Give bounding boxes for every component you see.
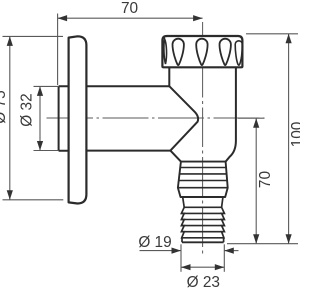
dim O23: left arrow: [181, 264, 191, 270]
dim O19: right arrow: [224, 248, 234, 254]
svg-text:70: 70: [257, 171, 274, 188]
dim O75: dimension line: [9, 36, 11, 199]
lower hose barb left profile: [181, 197, 184, 242]
lower hose barb right profile: [222, 197, 225, 242]
dim O23: dimension line: [181, 266, 224, 268]
cap (knurled nut): [162, 36, 242, 67]
dim O32: top arrow: [37, 86, 43, 96]
lower barb ring line 3: [181, 219, 224, 221]
dim O32: dimension line: [39, 86, 41, 150]
dim O19: right extension line: [223, 244, 225, 271]
svg-text:100: 100: [289, 122, 300, 148]
knurl slot 4: [220, 39, 231, 65]
dim 100: bottom extension line: [227, 243, 298, 245]
dim O75: bottom arrow: [7, 190, 13, 200]
dim O19: right leader line: [224, 250, 238, 252]
upper hose barb: [178, 162, 228, 197]
upper barb ring line 2: [180, 173, 227, 175]
knurl slot 2: [173, 39, 184, 65]
barb bottom edge: [182, 241, 224, 243]
svg-text:Ø 23: Ø 23: [187, 274, 220, 291]
dim O19: left arrow: [172, 248, 182, 254]
dim 70 right: bottom arrow: [253, 234, 259, 244]
svg-text:Ø 32: Ø 32: [19, 93, 36, 126]
dim O19: left extension line: [180, 244, 182, 271]
dim 70 top: left arrow: [58, 15, 68, 21]
vertical centerline: [202, 22, 204, 254]
dim O32: top extension line: [34, 85, 59, 87]
svg-text:70: 70: [121, 0, 138, 17]
dim O19: left leader line: [140, 250, 182, 252]
body nose profile: [169, 68, 198, 162]
wall pipe stub: [59, 86, 69, 151]
dim 100: dimension line: [288, 34, 290, 244]
body right side: [226, 68, 236, 162]
dim 70 right: top arrow: [253, 118, 259, 128]
lower barb ring line 1: [184, 206, 221, 208]
dim O75: top arrow: [7, 36, 13, 46]
horizontal pipe top edge: [86, 85, 169, 87]
dim 100: top extension line: [246, 33, 298, 35]
dim 70 right: dimension line: [255, 118, 257, 244]
knurl slot 1 (left clipped): [164, 39, 167, 64]
dim O32: bottom extension line: [34, 150, 59, 152]
horizontal centerline: [47, 117, 265, 119]
svg-text:Ø 75: Ø 75: [0, 90, 9, 123]
dim O75: top extension line: [3, 35, 64, 37]
dim O23: right arrow: [215, 264, 225, 270]
dim 70 top: left extension line: [57, 14, 59, 86]
dim O32: bottom arrow: [37, 141, 43, 151]
dim 70 top: right arrow: [193, 15, 203, 21]
dim O75: bottom extension line: [3, 199, 64, 201]
horizontal pipe bottom edge: [86, 150, 170, 152]
lower barb ring line 4: [181, 225, 224, 227]
upper barb ring line 3: [179, 180, 227, 182]
knurl slot 5 (right narrow): [235, 41, 242, 65]
knurl slot 3: [196, 39, 207, 66]
upper barb ring line 1: [180, 167, 226, 169]
dim 100: bottom arrow: [286, 234, 292, 244]
svg-text:Ø 19: Ø 19: [138, 234, 171, 251]
dim 70 right: top extension line: [238, 117, 265, 119]
dim 70 top: dimension line: [58, 17, 203, 19]
dim 100: top arrow: [286, 34, 292, 44]
lower barb ring line 5: [181, 231, 224, 233]
upper barb ring line 4: [178, 187, 228, 189]
lower barb ring line 2: [181, 212, 224, 214]
lower barb ring line 6: [182, 237, 224, 239]
flange plate: [69, 36, 87, 203]
